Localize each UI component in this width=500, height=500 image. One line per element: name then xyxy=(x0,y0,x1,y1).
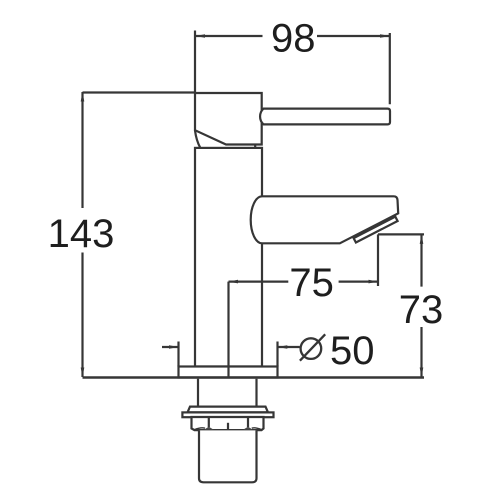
nut face line left xyxy=(208,417,210,427)
dimension 75 left arrow xyxy=(229,280,239,284)
washer plate top xyxy=(188,407,269,413)
dimension 50 line xyxy=(162,346,300,348)
dimension 75 right arrow xyxy=(369,280,379,284)
dimension 98 left extension line xyxy=(194,31,196,93)
handle neck fillet arc xyxy=(195,131,200,148)
dimension 50 right extension line xyxy=(276,342,278,367)
nut chamfer arc left xyxy=(195,428,206,430)
svg-text:75: 75 xyxy=(289,261,334,305)
svg-text:50: 50 xyxy=(330,329,375,373)
tap centreline extension xyxy=(227,282,229,377)
mounting surface line xyxy=(83,376,425,379)
dimension 143 reference line xyxy=(83,91,196,93)
dimension 73 top arrow xyxy=(420,234,424,244)
tap body xyxy=(195,148,262,367)
hex nut xyxy=(192,417,264,430)
nut chamfer triangle left xyxy=(204,427,214,430)
dimension 143 bottom arrow xyxy=(81,368,85,378)
shank upper left edge xyxy=(197,379,199,407)
washer plate bottom xyxy=(182,412,273,417)
dimension 98 right arrow xyxy=(380,34,390,38)
svg-text:143: 143 xyxy=(48,212,115,256)
dimension 50 right arrow xyxy=(278,345,288,349)
base flange xyxy=(179,367,278,378)
diameter symbol xyxy=(301,338,322,359)
dimension 73 bottom arrow xyxy=(420,368,424,378)
dimension 143 line xyxy=(81,92,83,377)
outlet level reference line xyxy=(378,233,424,235)
nut centre tick xyxy=(227,423,229,430)
svg-text:73: 73 xyxy=(399,288,444,332)
dimension 73 line xyxy=(420,234,422,377)
handle body xyxy=(195,93,262,145)
dimension 98 right extension line xyxy=(389,33,391,104)
dimension 98 line xyxy=(196,35,390,37)
nut face line right xyxy=(247,417,249,427)
lever arm xyxy=(260,109,390,125)
dimension 50 left extension line xyxy=(177,342,179,367)
dimension 143 top arrow xyxy=(81,92,85,102)
dimension 50 left arrow xyxy=(169,345,179,349)
dimension 98 left arrow xyxy=(196,34,206,38)
handle collar tick xyxy=(254,145,256,148)
aerator outlet xyxy=(354,217,398,243)
spout outlet extension line xyxy=(377,234,379,286)
shank upper right edge xyxy=(255,379,257,407)
nut chamfer arc right xyxy=(252,428,262,430)
nut chamfer triangle right xyxy=(243,427,253,430)
threaded shank xyxy=(199,430,257,482)
dimension 75 line xyxy=(229,281,379,283)
svg-text:98: 98 xyxy=(271,16,316,60)
spout xyxy=(251,196,399,243)
